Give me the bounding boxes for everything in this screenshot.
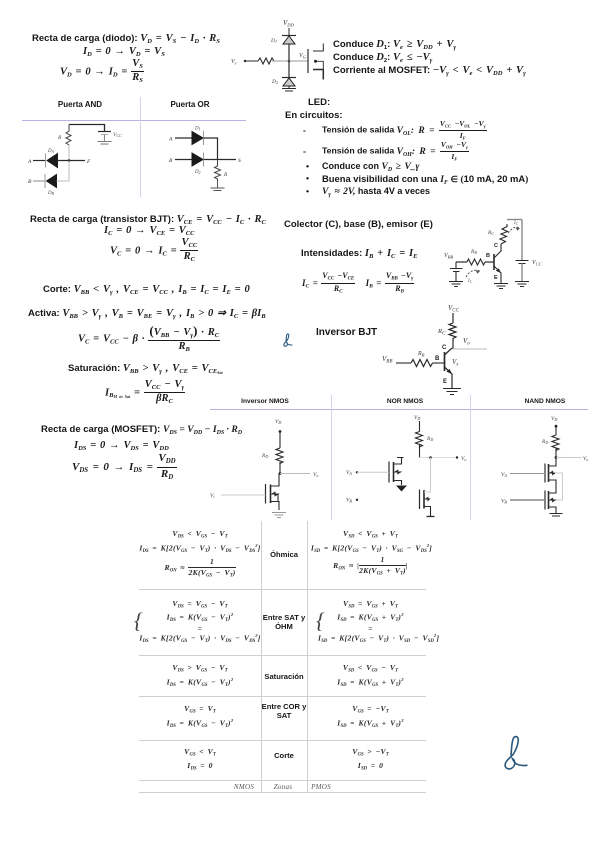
Inversor NMOS circuit [208,413,323,521]
MA channel bar [548,464,550,482]
svg-text:Vo: Vo [313,472,318,478]
svg-text:VCC: VCC [113,132,122,138]
svg-text:D1: D1 [194,127,201,132]
MA ground filled triangle [396,486,407,492]
battery VCC [516,261,529,264]
transistor Q base bar [493,254,495,270]
top wire to rail [507,219,522,221]
wire VB to MB gate [510,499,545,501]
node Vg junction [288,60,291,63]
output node dot [555,456,558,459]
IC dashed arc near emitter [466,270,480,277]
svg-text:B: B [435,356,440,362]
MB source lead [549,507,557,513]
blue ink mark small [283,333,293,347]
svg-text:B: B [486,253,490,259]
drain lead [271,474,280,487]
output node wire [420,457,458,459]
row 3: Saturacion [139,663,261,673]
wire DB to vertical [57,161,70,182]
MB drain lead [549,490,557,494]
svg-text:VD: VD [275,419,281,425]
MOSFET MA gate bar [388,462,390,483]
wire to output node [555,448,557,458]
MOSFET MB gate bar [544,491,546,510]
output wire [556,457,582,459]
svg-text:RC: RC [487,230,494,236]
NAND NMOS circuit [495,411,595,521]
diode DB triangle [47,175,57,188]
svg-text:Vo: Vo [463,337,470,347]
svg-text:RB: RB [417,351,425,358]
wire DA to F [58,160,86,162]
MA body arrow [550,471,555,474]
NOR NMOS circuit [340,411,470,521]
diode D1 bar [203,131,205,145]
svg-text:RB: RB [470,249,477,255]
ground [211,181,225,191]
MOSFET drain [313,44,323,52]
VCC rail [521,220,523,261]
node dot [429,456,432,459]
svg-text:VBB: VBB [382,355,392,365]
MA source lead [549,480,557,490]
resistor RD zigzag [416,432,423,448]
wire to S output [204,159,237,161]
wire resistor to node [272,60,289,62]
svg-text:Vo: Vo [583,456,588,462]
resistor RC zigzag diagonal [500,224,508,244]
ground [272,513,286,518]
ground [443,389,461,395]
svg-text:B: B [169,158,173,164]
wire top rail [69,125,105,132]
resistor R zigzag [66,125,71,146]
MB body arrow [550,498,555,501]
svg-text:Ve: Ve [231,59,237,66]
wire B [33,180,45,182]
svg-text:IC: IC [467,279,473,284]
MOSFET source [313,70,323,80]
MA drain lead [549,458,557,467]
wire VCC stem [452,313,454,323]
svg-text:VD: VD [414,415,420,421]
wire RB to base [433,362,445,364]
diode D1 triangle [192,132,203,145]
wire RC to collector node [452,340,454,349]
bottom labels [224,783,264,791]
svg-text:RD: RD [261,453,268,459]
MA channel bar [393,462,395,482]
wire A [33,160,46,162]
svg-text:RC: RC [437,328,446,337]
battery VCC [98,132,123,145]
MOSFET gate bar [265,484,267,504]
body arrow [272,492,278,496]
MOSFET MA gate bar [544,464,546,483]
MOSFET gate bar [307,49,309,73]
MB body arrow [426,498,430,501]
wire VBB to RB [396,362,411,364]
MB channel bar [423,490,425,509]
svg-text:VB: VB [346,498,352,504]
wire node to gate [289,60,308,62]
MOSFET body arrow [314,60,317,63]
wire to resistor [279,432,281,449]
top node dot [279,430,282,433]
wire to resistor [555,426,557,435]
wire RB to base [485,261,494,263]
battery VBB [450,262,463,281]
svg-text:VG: VG [299,53,307,60]
input dot [244,60,246,62]
body rail [555,473,563,500]
diode DA bar [45,154,47,168]
svg-text:A: A [168,137,173,143]
resistor R vertical zigzag [215,160,221,182]
blue ink ampersand large [503,734,529,771]
svg-text:E: E [494,275,498,281]
top node dot [555,425,558,428]
ground [282,86,296,91]
ground VBB [449,282,463,287]
ground emitter [494,284,508,289]
svg-text:VDD: VDD [283,19,295,28]
VA dot [356,471,358,473]
MB source lead [424,507,431,517]
svg-text:Vo: Vo [461,456,466,462]
wire VDD stem [288,28,290,35]
wire resistor to node [68,145,70,161]
resistor Rs zigzag [258,58,274,64]
MB ground tick [427,516,435,518]
output node dot [279,472,282,475]
wire B [175,159,192,161]
diode DA triangle [47,154,58,168]
resistor RD zigzag [552,435,559,451]
diode D2 [271,78,296,87]
AND gate diode circuit [25,120,125,198]
svg-text:RD: RD [426,436,433,442]
MA drain lead [394,458,404,465]
MOSFET MB gate bar [419,490,421,510]
diode D2 bar [203,153,205,167]
output wire [280,473,310,475]
MA source lead [394,481,402,486]
emitter lead with arrow [445,367,453,388]
svg-text:B: B [28,179,32,185]
wire node to D2 [288,61,290,77]
svg-text:VD: VD [551,416,557,422]
resistor RC zigzag [449,323,456,340]
svg-text:RD: RD [541,439,548,445]
header underline [22,120,246,121]
resistor RB zigzag [467,259,485,265]
IC' dashed arc near collector [508,227,520,233]
wire A [175,137,192,139]
diode D2 triangle [192,153,203,166]
MB channel bar [548,491,550,509]
svg-text:DB: DB [47,191,55,196]
ground [550,514,563,517]
panel divider [140,97,141,197]
emitter lead with arrow [494,266,501,283]
svg-text:VCC: VCC [532,260,543,267]
transistor base bar [444,352,446,371]
svg-text:D2: D2 [194,170,201,175]
row 5: Corte [139,747,261,757]
svg-text:R: R [223,172,228,178]
svg-text:D1: D1 [270,38,277,44]
output dot [456,456,458,458]
wire input to resistor [245,60,258,62]
wire Vi to gate [221,494,266,496]
row 2: Entre SAT y OHM [139,599,261,609]
svg-text:VCC: VCC [448,304,460,314]
svg-text:D2: D2 [271,79,278,85]
conduce lines with bracket marks [333,39,456,51]
source lead [271,502,280,511]
row 1: Ohmica [139,529,261,539]
MA body arrow [395,470,401,473]
collector lead [445,348,453,355]
output wire Vo [453,348,487,350]
row 4: Entre COR y SAT [139,704,261,714]
wire VA to MA gate [510,473,545,475]
MOSFET channel bar [270,485,272,504]
svg-text:VA: VA [501,472,507,478]
ground rail [515,282,529,287]
wire D1 to corner [204,138,218,160]
svg-text:VB: VB [501,499,507,505]
svg-text:E: E [443,379,447,385]
svg-text:F: F [86,159,91,165]
wire D1 to node [288,44,290,61]
svg-text:S: S [238,158,241,164]
svg-text:Vx: Vx [452,358,459,368]
svg-text:C: C [442,345,447,351]
svg-text:DA: DA [47,149,55,154]
diode D1 [270,36,296,45]
node junction dot [68,159,71,162]
collector lead [494,244,501,258]
wire VA to gate [357,471,389,473]
svg-text:VBB: VBB [444,253,453,260]
svg-text:A: A [27,159,32,165]
OR gate diode circuit [148,120,248,198]
wire VBB to RB [456,261,467,263]
svg-text:IC: IC [513,221,519,226]
diode DB bar [44,174,46,188]
wire VD to resistor [419,421,421,432]
svg-text:C: C [494,243,498,249]
svg-text:Vi: Vi [210,493,215,499]
VB dot [356,499,358,501]
wire to output node [279,462,281,474]
resistor RB zigzag [411,360,433,367]
resistor RD zigzag [276,448,283,464]
wire resistor to node [419,444,421,458]
svg-text:R: R [57,135,62,141]
MB drain lead [424,458,431,493]
svg-text:VA: VA [346,470,352,476]
